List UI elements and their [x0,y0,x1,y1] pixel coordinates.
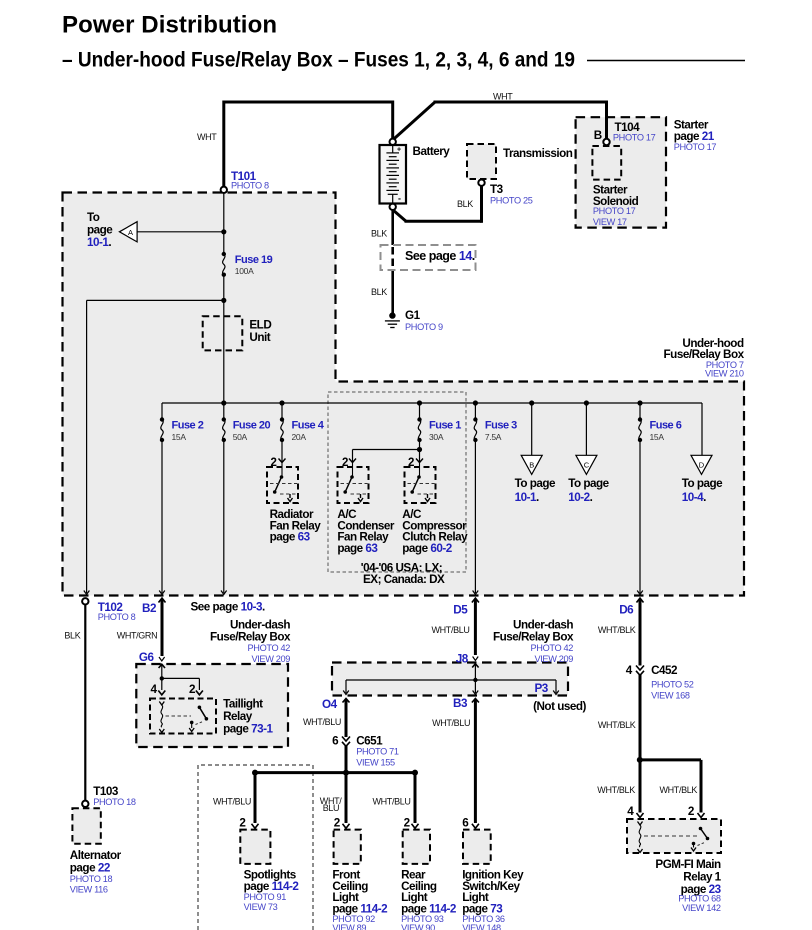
svg-text:VIEW 209: VIEW 209 [534,654,573,664]
svg-text:To page: To page [568,477,609,490]
svg-text:Fuse 20: Fuse 20 [233,420,271,432]
svg-text:VIEW 148: VIEW 148 [462,923,501,930]
svg-text:6: 6 [462,817,469,830]
svg-text:Unit: Unit [249,331,270,344]
svg-text:A: A [128,228,133,237]
svg-text:Fuse 4: Fuse 4 [292,420,325,432]
svg-text:G1: G1 [405,309,421,322]
svg-text:10-4.: 10-4. [682,491,706,504]
svg-text:Relay 1: Relay 1 [683,871,721,884]
svg-text:4: 4 [151,683,158,696]
svg-text:2: 2 [688,805,695,818]
svg-text:page 60-2: page 60-2 [402,542,452,555]
svg-text:VIEW 210: VIEW 210 [705,369,744,379]
svg-text:100A: 100A [235,266,254,276]
svg-text:Relay: Relay [223,710,253,723]
svg-text:VIEW 73: VIEW 73 [244,902,278,912]
svg-text:PHOTO 25: PHOTO 25 [490,196,533,206]
svg-text:PHOTO 18: PHOTO 18 [93,797,136,807]
svg-text:B2: B2 [142,602,157,615]
svg-text:PHOTO 71: PHOTO 71 [356,746,399,756]
svg-text:10-1.: 10-1. [87,236,111,249]
svg-text:C: C [584,460,590,469]
svg-text:Fuse/Relay Box: Fuse/Relay Box [210,631,291,644]
svg-text:WHT/BLK: WHT/BLK [660,785,698,795]
svg-text:T3: T3 [490,183,504,196]
svg-text:G6: G6 [139,651,155,664]
svg-text:BLK: BLK [371,287,387,297]
svg-text:30A: 30A [429,432,444,442]
svg-text:Fuse 6: Fuse 6 [650,420,682,432]
svg-text:page 73-1: page 73-1 [223,723,273,736]
svg-text:VIEW 17: VIEW 17 [593,217,627,227]
svg-text:20A: 20A [292,432,307,442]
svg-text:B: B [529,460,534,469]
svg-text:+: + [397,147,401,154]
svg-text:WHT/BLK: WHT/BLK [598,625,636,635]
svg-text:WHT/BLU: WHT/BLU [432,625,470,635]
svg-text:VIEW 116: VIEW 116 [70,885,108,895]
svg-text:WHT/BLU: WHT/BLU [303,717,341,727]
svg-text:PHOTO 52: PHOTO 52 [651,680,694,690]
svg-text:B: B [594,129,602,142]
svg-text:Battery: Battery [413,145,451,158]
svg-text:J8: J8 [456,653,469,666]
svg-text:P3: P3 [535,682,549,695]
svg-text:O4: O4 [322,698,338,711]
svg-text:PHOTO 68: PHOTO 68 [678,894,721,904]
svg-text:50A: 50A [233,432,248,442]
svg-text:PHOTO 8: PHOTO 8 [98,612,136,622]
svg-text:2: 2 [334,817,341,830]
svg-text:See page 14.: See page 14. [405,249,475,263]
svg-text:D: D [699,460,705,469]
svg-text:WHT/BLU: WHT/BLU [213,797,251,807]
svg-text:WHT/BLU: WHT/BLU [373,797,411,807]
svg-text:See page 10-3.: See page 10-3. [191,601,265,614]
svg-text:-: - [398,194,401,204]
svg-text:WHT/BLK: WHT/BLK [598,720,636,730]
svg-text:2: 2 [189,683,196,696]
svg-text:Fuse 1: Fuse 1 [429,420,461,432]
svg-text:PGM-FI Main: PGM-FI Main [655,858,721,871]
svg-text:PHOTO 18: PHOTO 18 [70,874,113,884]
svg-text:2: 2 [404,817,411,830]
svg-text:PHOTO 17: PHOTO 17 [613,133,656,143]
svg-text:PHOTO 8: PHOTO 8 [231,181,269,191]
svg-text:VIEW 155: VIEW 155 [356,758,395,768]
svg-text:2: 2 [342,457,348,469]
svg-text:15A: 15A [650,432,665,442]
svg-text:Fuse/Relay Box: Fuse/Relay Box [493,631,574,644]
svg-text:Taillight: Taillight [223,698,263,711]
svg-text:Fuse 3: Fuse 3 [485,420,517,432]
svg-text:BLK: BLK [457,199,473,209]
svg-text:PHOTO 9: PHOTO 9 [405,322,443,332]
svg-text:VIEW 142: VIEW 142 [682,903,721,913]
svg-text:To: To [87,211,100,224]
svg-text:ELD: ELD [249,319,271,332]
svg-text:VIEW 89: VIEW 89 [332,923,366,930]
svg-text:10-2.: 10-2. [568,491,592,504]
svg-text:page 22: page 22 [70,862,111,875]
svg-text:(Not used): (Not used) [533,700,586,713]
svg-text:Power Distribution: Power Distribution [62,12,277,39]
svg-text:WHT: WHT [197,132,217,142]
svg-text:PHOTO 91: PHOTO 91 [244,892,287,902]
svg-text:WHT/GRN: WHT/GRN [117,631,158,641]
svg-text:Fuse 2: Fuse 2 [172,420,204,432]
svg-text:2: 2 [239,817,246,830]
svg-text:6: 6 [332,735,339,748]
svg-text:To page: To page [682,477,723,490]
svg-text:EX; Canada: DX: EX; Canada: DX [363,573,445,586]
svg-text:WHT: WHT [493,92,513,102]
svg-text:PHOTO 17: PHOTO 17 [593,206,636,216]
svg-text:BLU: BLU [323,803,339,813]
svg-text:BLK: BLK [371,229,387,239]
svg-text:D6: D6 [619,603,634,616]
svg-text:Fuse 19: Fuse 19 [235,254,273,266]
svg-text:VIEW 90: VIEW 90 [401,923,435,930]
svg-text:WHT/BLU: WHT/BLU [432,718,470,728]
svg-text:VIEW 209: VIEW 209 [251,654,290,664]
svg-text:B3: B3 [453,697,468,710]
svg-text:10-1.: 10-1. [515,491,539,504]
svg-text:Alternator: Alternator [70,849,122,862]
svg-text:PHOTO 42: PHOTO 42 [531,643,574,653]
svg-text:BLK: BLK [64,631,80,641]
svg-text:7.5A: 7.5A [485,432,502,442]
svg-text:page 63: page 63 [270,531,311,544]
svg-text:4: 4 [627,805,634,818]
svg-text:PHOTO 42: PHOTO 42 [248,643,291,653]
svg-text:4: 4 [626,664,633,677]
svg-text:PHOTO 17: PHOTO 17 [674,142,717,152]
svg-text:WHT/BLK: WHT/BLK [597,785,635,795]
svg-text:C452: C452 [651,664,678,677]
svg-text:VIEW 168: VIEW 168 [651,691,690,701]
svg-text:– Under-hood Fuse/Relay Box –: – Under-hood Fuse/Relay Box – Fuses 1, 2… [62,49,575,72]
svg-text:Transmission: Transmission [503,147,573,160]
svg-text:15A: 15A [172,432,187,442]
svg-text:D5: D5 [453,603,468,616]
svg-text:To page: To page [515,477,556,490]
svg-text:2: 2 [408,457,414,469]
svg-text:page: page [87,224,113,237]
svg-text:2: 2 [271,457,277,469]
svg-text:page 63: page 63 [337,542,378,555]
